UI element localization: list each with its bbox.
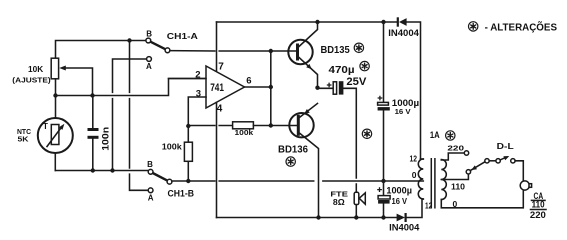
svg-text:IN4004: IN4004 xyxy=(389,222,419,232)
label 16V (upper) xyxy=(395,107,411,116)
label 12 (top) xyxy=(410,154,418,164)
svg-text:100k: 100k xyxy=(162,143,183,152)
svg-text:0: 0 xyxy=(412,170,417,180)
svg-text:1000µ: 1000µ xyxy=(386,185,412,195)
label 100k (vertical resistor) xyxy=(162,143,183,152)
resistor R2 100k (vertical, pin3 to ground) xyxy=(184,142,192,161)
label CA xyxy=(534,191,544,202)
svg-text:- ALTERAÇÕES: - ALTERAÇÕES xyxy=(485,21,558,34)
switch CH1-A xyxy=(146,38,170,61)
svg-text:741: 741 xyxy=(210,82,224,94)
switch D-L arm (open) xyxy=(500,156,509,160)
label 100n (rotated) xyxy=(101,127,111,151)
svg-text:(AJUSTE): (AJUSTE) xyxy=(12,76,51,85)
junction: BD136 collector at bottom rail xyxy=(316,215,320,219)
label T xyxy=(43,122,48,131)
label 110 (output) xyxy=(532,200,545,210)
label 470u xyxy=(329,65,355,76)
svg-text:12: 12 xyxy=(410,154,418,164)
label B (CH1-A) xyxy=(146,30,152,39)
svg-text:CH1-B: CH1-B xyxy=(168,188,195,198)
label 110 (tap) xyxy=(451,183,466,192)
contact: 220 xyxy=(464,151,468,155)
svg-text:110: 110 xyxy=(532,200,545,210)
junction: wiper lead / pin2 feed xyxy=(90,93,94,97)
svg-text:5K: 5K xyxy=(18,134,30,143)
pin label 7 xyxy=(218,61,224,72)
wire: NTC bottom lead xyxy=(54,153,56,171)
AC plug symbol xyxy=(520,181,531,190)
label 1N4004 (bottom) xyxy=(389,222,419,232)
svg-text:CH1-A: CH1-A xyxy=(167,31,198,41)
svg-text:16 V: 16 V xyxy=(395,107,411,116)
wire: 220 tap to contact xyxy=(441,153,464,160)
label (AJUSTE) xyxy=(12,76,51,85)
junction: pot bottom / op-amp pin2 feed xyxy=(53,93,57,97)
alteration mark near 1A xyxy=(446,131,455,140)
switch D-L contact right xyxy=(511,159,515,163)
bottom rail (V-) xyxy=(217,199,424,218)
svg-text:B: B xyxy=(147,160,153,169)
wire: from CH1-A contact A left and down to bottom NTC wire xyxy=(113,59,147,171)
svg-text:25V: 25V xyxy=(346,76,367,88)
svg-text:4: 4 xyxy=(217,104,223,115)
svg-text:470µ: 470µ xyxy=(329,65,355,76)
label 1A xyxy=(430,130,440,141)
pin 3 wire down through 100k xyxy=(188,97,206,181)
svg-text:B: B xyxy=(146,30,152,39)
alteration mark near 470u xyxy=(360,61,369,70)
ground wire (center-tap net) xyxy=(172,180,423,182)
label 1N4004 (top) xyxy=(388,28,419,38)
switch D-L contact left xyxy=(496,159,500,163)
wire: base bus vertical (opamp out to bases) xyxy=(270,51,272,126)
legend text - ALTERACOES xyxy=(485,21,558,34)
speaker FTE 8ohm xyxy=(354,192,365,217)
junction: BD135 collector at top rail xyxy=(315,20,319,24)
label 25V xyxy=(346,76,367,88)
svg-text:8Ω: 8Ω xyxy=(333,197,345,207)
op-amp U1 741 xyxy=(206,66,245,108)
junction: pin6 / base bus xyxy=(269,85,273,89)
svg-text:2: 2 xyxy=(195,69,200,80)
contact: selector pivot xyxy=(485,159,489,163)
capacitor C1 100n xyxy=(88,96,99,171)
junction: arm wire / base bus xyxy=(269,49,273,53)
junction: pin3 node xyxy=(186,124,190,128)
label NTC xyxy=(17,127,32,136)
svg-text:D-L: D-L xyxy=(497,141,514,151)
transistor Q2 BD136 xyxy=(271,103,319,217)
pin 2 wire xyxy=(169,78,207,80)
pin label 3 xyxy=(196,88,201,99)
pin label 6 xyxy=(246,76,251,87)
junction: CH1-A A-wire on bottom-left net xyxy=(110,168,114,172)
transistor Q1 BD135 xyxy=(288,22,317,88)
label 0 (secondary) xyxy=(453,199,458,209)
label 0 (center tap) xyxy=(412,170,417,180)
legend alteration mark xyxy=(469,22,478,31)
capacitor rail with C3/C4 xyxy=(383,22,385,218)
label BD136 xyxy=(278,144,308,155)
switch CH1-B xyxy=(148,169,172,192)
label 220 (output) xyxy=(530,210,546,221)
alteration mark on speaker wire xyxy=(362,129,371,138)
wire: pivot to D-L switch xyxy=(489,160,496,162)
pin label 4 xyxy=(217,104,223,115)
capacitor C2 470u 25V xyxy=(318,81,357,192)
svg-text:100k: 100k xyxy=(235,128,255,137)
thermistor NTC 5K xyxy=(38,118,73,153)
pin 7 riser (V+) xyxy=(216,22,218,71)
svg-text:220: 220 xyxy=(447,143,464,152)
label D-L xyxy=(497,141,514,151)
alteration mark near BD135 xyxy=(354,43,363,52)
junction: cap rail at bottom rail xyxy=(381,215,385,219)
label 1000u (upper) xyxy=(392,98,419,108)
junction: 100k / base bus / BD136 base xyxy=(269,123,273,127)
potentiometer R1 10K (AJUSTE) xyxy=(51,58,92,95)
top rail (V+) xyxy=(217,22,421,159)
label 8ohm xyxy=(333,197,345,207)
svg-text:110: 110 xyxy=(451,183,466,192)
junction node on top wire xyxy=(127,38,131,42)
svg-text:T: T xyxy=(43,122,48,131)
svg-text:3: 3 xyxy=(196,88,201,99)
wire: bottom-left net (NTC bottom to CH1-B contact B) xyxy=(55,170,148,172)
pin 6 wire xyxy=(245,86,271,88)
label CH1-B xyxy=(168,188,195,198)
wire: pot bottom lead down to NTC xyxy=(55,79,57,118)
capacitor C3 1000u 16V (upper) xyxy=(378,96,390,111)
divider line CA/110 xyxy=(532,199,546,201)
label 220 (tap) xyxy=(447,143,464,152)
label 100k (horizontal resistor) xyxy=(235,128,255,137)
pin 4 riser (V-) xyxy=(216,103,218,218)
wire: CH1-A arm to transistor bases (hops pin7 riser) xyxy=(170,50,296,52)
wire: 110 tap to contact xyxy=(441,174,468,180)
label B (CH1-B) xyxy=(147,160,153,169)
junction: 100k bottom at ground wire xyxy=(186,179,190,183)
label 1000u (lower) xyxy=(386,185,412,195)
label 10K xyxy=(28,65,43,74)
pin label 2 xyxy=(195,69,200,80)
svg-text:BD136: BD136 xyxy=(278,144,308,155)
label BD135 xyxy=(321,45,351,56)
wire: top net from potentiometer top to CH1-A contact B xyxy=(56,41,147,59)
label CH1-A xyxy=(167,31,198,41)
junction: speaker at bottom rail xyxy=(354,215,358,219)
label 741 xyxy=(210,82,224,94)
diode D1 1N4004 (top) xyxy=(398,17,407,26)
label A (CH1-A) xyxy=(146,62,152,71)
label A (CH1-B) xyxy=(148,194,154,203)
svg-text:BD135: BD135 xyxy=(321,45,351,56)
svg-text:0: 0 xyxy=(453,199,458,209)
alteration mark near BD136 xyxy=(286,157,295,166)
junction: cap rail at top rail xyxy=(381,20,385,24)
svg-text:6: 6 xyxy=(246,76,251,87)
wire: vertical from top-wire junction down to CH1-B contact A (hops two wires) xyxy=(130,41,149,191)
junction: BD135 emitter / 470u node xyxy=(315,86,319,90)
junction: cap midpoint on ground wire xyxy=(381,179,385,183)
label 5K xyxy=(18,134,30,143)
svg-text:1A: 1A xyxy=(430,130,440,141)
svg-text:16 V: 16 V xyxy=(392,197,408,206)
selector arm with arrow xyxy=(470,162,485,171)
wire: D-L to plug xyxy=(515,161,523,181)
svg-text:7: 7 xyxy=(218,61,224,72)
svg-text:A: A xyxy=(146,62,152,71)
label FTE xyxy=(330,189,348,198)
svg-text:12: 12 xyxy=(425,201,432,211)
svg-text:IN4004: IN4004 xyxy=(388,28,419,38)
svg-text:220: 220 xyxy=(530,210,546,221)
svg-text:10K: 10K xyxy=(28,65,43,74)
diode D2 1N4004 (bottom) xyxy=(397,213,406,222)
resistor R3 100k (horizontal feedback) xyxy=(188,122,270,129)
label 16V (lower) xyxy=(392,197,408,206)
wire: op-amp pin 2 feed line xyxy=(56,79,207,96)
junction: 100n bottom on bottom-left net xyxy=(91,168,95,172)
svg-text:100n: 100n xyxy=(101,127,111,151)
wire: plug bottom to 0 tap xyxy=(441,190,523,208)
divider line 110/220 xyxy=(531,209,547,211)
svg-text:A: A xyxy=(148,194,154,203)
label 12 (bottom) xyxy=(425,201,432,211)
transformer T1 xyxy=(418,158,446,209)
contact: 110 xyxy=(466,170,470,174)
capacitor C4 1000u 16V (lower) xyxy=(377,187,390,203)
